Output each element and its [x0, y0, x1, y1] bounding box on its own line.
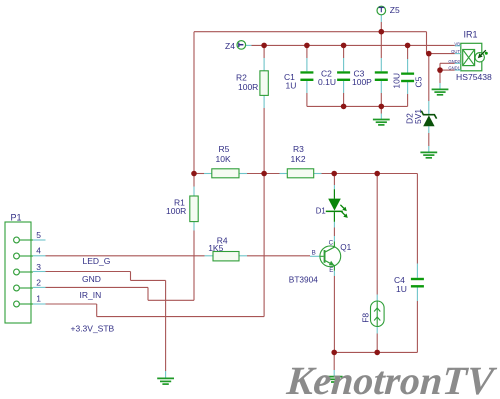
ground at emitter rail: [326, 377, 343, 382]
wire D1 bottom to Q1 collector: [333, 222, 335, 242]
connector P1: [5, 212, 46, 323]
wire GND net from P1 pin3: [46, 272, 166, 378]
resistor R1: [166, 196, 198, 222]
wire cap bottom rail y=106.4: [307, 105, 408, 107]
svg-text:HS75438: HS75438: [456, 72, 492, 82]
svg-text:3: 3: [36, 262, 41, 272]
svg-text:Z5: Z5: [390, 5, 400, 15]
svg-text:1K5: 1K5: [208, 243, 223, 253]
wire VB rail y=45.4 from Z4 to IR1: [246, 44, 455, 46]
wire rail R3 to C4 corner: [314, 174, 418, 278]
wire C5 bottom: [407, 81, 409, 106]
svg-text:BT3904: BT3904: [289, 275, 318, 285]
svg-text:5V1: 5V1: [413, 109, 423, 124]
svg-text:1: 1: [36, 294, 41, 304]
wire D2 bottom to ground: [428, 126, 430, 152]
capacitor C2: [318, 69, 350, 87]
wire main ground stub: [333, 352, 335, 376]
svg-text:KenotronTV: KenotronTV: [284, 358, 498, 399]
wire C2 top: [343, 45, 345, 71]
svg-text:1U: 1U: [396, 284, 407, 294]
svg-text:4: 4: [36, 246, 41, 256]
wire C5 top: [407, 45, 409, 72]
junction at C2 top: [341, 43, 347, 49]
wire IR1 GND1 pin routing: [440, 69, 455, 71]
wire top-left vertical (OUT net): [193, 32, 195, 174]
wire Z5 stub: [380, 14, 382, 32]
svg-text:100R: 100R: [238, 82, 258, 92]
net label GND: [82, 274, 101, 284]
wire F8 bottom: [376, 327, 378, 353]
wire C3 ground stub: [380, 106, 382, 119]
resistor R5: [212, 144, 239, 178]
svg-text:Z4: Z4: [225, 41, 235, 51]
wire F8 top: [376, 174, 378, 302]
junction at C2 bottom: [341, 104, 347, 110]
svg-text:5: 5: [36, 230, 41, 240]
svg-text:R3: R3: [293, 144, 304, 154]
svg-text:IR1: IR1: [464, 29, 478, 39]
svg-text:P1: P1: [11, 212, 22, 222]
net label +3.3V_STB: [71, 324, 115, 334]
wire R1 bottom to IR_IN: [193, 222, 195, 301]
wire R4 right to Q1 base: [239, 255, 320, 257]
svg-text:0.1U: 0.1U: [318, 77, 336, 87]
svg-text:OUT: OUT: [451, 49, 460, 54]
fuse F8: [361, 301, 385, 327]
junction at C1 top: [304, 43, 310, 49]
resistor R2: [236, 71, 268, 96]
svg-text:10K: 10K: [216, 154, 231, 164]
svg-text:Q1: Q1: [340, 243, 351, 252]
transistor Q1: [289, 240, 352, 285]
testpoint Z4: [225, 41, 246, 51]
svg-text:C: C: [329, 240, 334, 247]
svg-text:R5: R5: [219, 144, 230, 154]
svg-text:IR_IN: IR_IN: [80, 290, 102, 300]
watermark KenotronTV: [284, 358, 498, 399]
wire bottom rail y=352.4 and C4 bottom: [334, 288, 417, 353]
svg-text:F8: F8: [361, 313, 371, 323]
junction at Z4 / R2 top: [261, 43, 267, 49]
capacitor C5 with 10U value: [392, 73, 424, 89]
wire D2 vertical from OUT junction: [428, 54, 430, 114]
wire R2 top: [263, 45, 265, 70]
junction at C3 bottom / ground: [379, 104, 385, 110]
wire IR1 ground stub: [439, 70, 441, 89]
wire +3.3V_STB from P1 pin1: [46, 304, 265, 317]
svg-text:100R: 100R: [166, 206, 186, 216]
svg-text:GND1: GND1: [448, 66, 460, 71]
net label IR_IN: [80, 290, 102, 300]
wire R1 top: [193, 174, 195, 197]
junction at R2 bottom / +3.3V riser: [261, 171, 267, 177]
capacitor C4: [394, 275, 424, 294]
wire Q1 emitter down: [333, 271, 335, 353]
ground at GND net: [157, 378, 174, 384]
svg-text:C5: C5: [414, 76, 424, 87]
junction at F8 top: [374, 171, 380, 177]
wire C3 top (crosses VB rail, no junction): [380, 32, 382, 72]
net label LED_G: [83, 256, 111, 266]
wire OUT pin horizontal: [427, 53, 455, 55]
svg-text:GND2: GND2: [448, 59, 460, 64]
svg-text:100P: 100P: [352, 77, 372, 87]
capacitor C3: [352, 69, 388, 87]
ground at D2: [420, 152, 437, 157]
junction at F8 bottom: [374, 350, 380, 356]
svg-text:B: B: [312, 250, 316, 257]
wire C3 bottom: [380, 80, 382, 107]
wire R2 bottom: [263, 95, 265, 173]
wire LED_G from P1 pin4 to R4: [46, 255, 214, 257]
wire +3.3V riser x=264: [263, 174, 265, 317]
wire D1 top: [333, 174, 335, 190]
svg-text:GND: GND: [82, 274, 101, 284]
wire C1 bottom: [306, 80, 308, 107]
resistor R4: [208, 235, 239, 261]
junction at R1 top / R5 left: [191, 171, 197, 177]
IR receiver IR1: [448, 29, 492, 82]
junction at Z5 / C3 top: [379, 29, 385, 35]
wire top horizontal (OUT net): [194, 31, 427, 33]
wire IR_IN from P1 pin2 to R1: [46, 287, 195, 300]
zener diode D2: [405, 109, 437, 127]
wire main rail y=173.5 segment left: [194, 173, 212, 175]
wire C1 top: [306, 45, 308, 71]
capacitor C1: [284, 71, 313, 90]
svg-text:2: 2: [36, 278, 41, 288]
svg-text:D1: D1: [316, 207, 326, 216]
svg-text:10U: 10U: [392, 73, 402, 89]
resistor R3: [287, 144, 313, 178]
svg-text:1K2: 1K2: [291, 154, 306, 164]
testpoint Z5: [377, 5, 400, 15]
junction at IR1 OUT / D2: [426, 51, 432, 57]
svg-text:E: E: [329, 267, 333, 274]
svg-text:+3.3V_STB: +3.3V_STB: [71, 324, 115, 334]
ground at IR1: [432, 89, 449, 94]
wire right corner down to OUT pin line: [426, 32, 428, 54]
svg-text:LED_G: LED_G: [83, 256, 111, 266]
LED D1: [316, 189, 348, 222]
wire IR1 GND2 pin routing: [440, 63, 455, 70]
junction at IR1 GND1/GND2: [437, 67, 443, 73]
svg-text:1U: 1U: [286, 81, 297, 91]
junction at C5 top: [405, 43, 411, 49]
wire C2 bottom: [343, 80, 345, 107]
junction at D1 anode: [331, 171, 337, 177]
svg-text:VB: VB: [454, 41, 460, 46]
ground at C3: [373, 120, 390, 125]
wire rail R5 to R2 junction: [239, 173, 287, 175]
junction at Q1 emitter / ground rail: [331, 350, 337, 356]
